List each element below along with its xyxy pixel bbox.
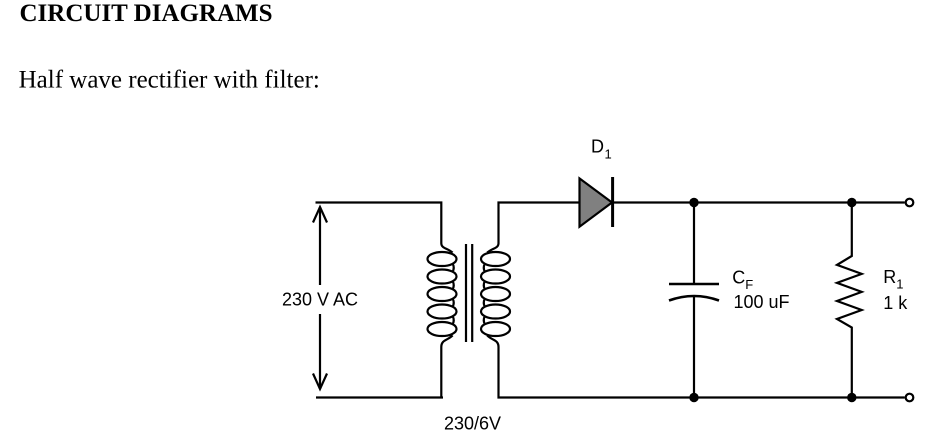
svg-text:CIRCUIT DIAGRAMS: CIRCUIT DIAGRAMS bbox=[20, 0, 273, 27]
svg-text:D: D bbox=[591, 137, 604, 157]
svg-text:C: C bbox=[732, 267, 745, 287]
svg-text:1: 1 bbox=[605, 146, 612, 161]
svg-text:230/6V: 230/6V bbox=[444, 413, 501, 433]
svg-text:1: 1 bbox=[896, 277, 903, 292]
svg-text:230 V AC: 230 V AC bbox=[282, 289, 358, 309]
svg-text:R: R bbox=[883, 267, 896, 287]
svg-text:1 k: 1 k bbox=[883, 293, 908, 313]
svg-text:100 uF: 100 uF bbox=[734, 292, 790, 312]
svg-text:F: F bbox=[745, 277, 753, 292]
svg-text:Half wave rectifier with filte: Half wave rectifier with filter: bbox=[19, 67, 320, 94]
